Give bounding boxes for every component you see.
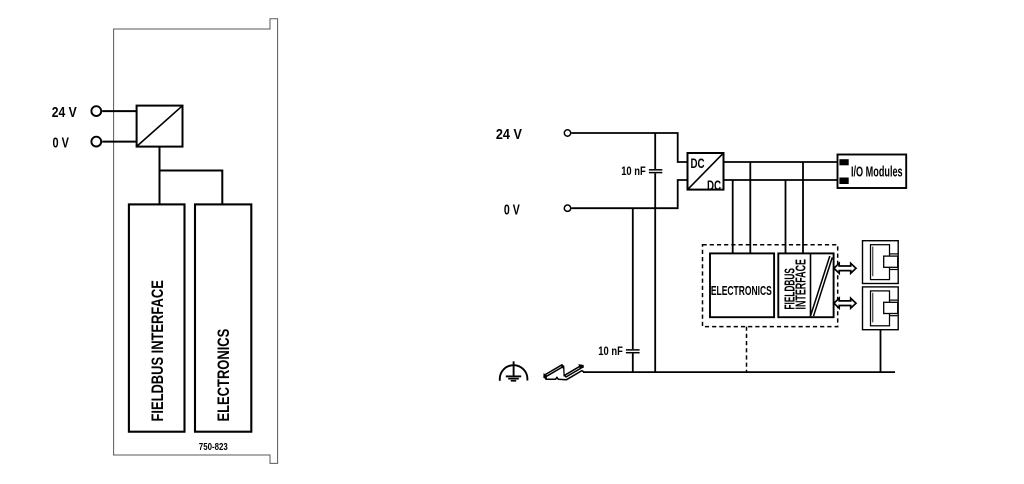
svg-text:I/O Modules: I/O Modules [851,164,903,180]
wire 24V rail to converter input [571,133,687,162]
wire drop 4 to fieldbus interface [802,162,804,253]
svg-text:FIELDBUS INTERFACE: FIELDBUS INTERFACE [148,280,167,421]
dashed shield wire from enclosure to earth rail [746,327,748,373]
wire lower RJ45 to earth rail [880,330,882,372]
DC/DC converter box (left) [137,106,183,147]
divider line in fieldbus box [810,253,812,317]
isolation diagonal double line [811,256,830,316]
svg-text:INTERFACE: INTERFACE [794,259,810,310]
double arrow lower [834,298,856,308]
wire drop 2 to electronics [749,162,751,253]
svg-text:24 V: 24 V [52,104,77,121]
svg-text:750-823: 750-823 [199,441,228,453]
electronics box (left) [195,204,251,431]
RJ45 connector lower [863,287,899,330]
wire converter to fieldbus interface box (left) [159,147,161,204]
I/O Modules box [838,155,907,189]
svg-text:DC: DC [707,177,721,193]
electronics box (right) [710,253,774,317]
I/O Modules pin lower [839,178,848,185]
wire 24V terminal to converter (left) [102,110,137,112]
svg-text:10 nF: 10 nF [598,344,623,358]
wire branch to electronics box (left) [160,171,223,204]
fieldbus interface box (right) [778,253,833,317]
wire 0V rail to converter input [571,180,687,208]
svg-text:ELECTRONICS: ELECTRONICS [214,329,233,422]
svg-text:0 V: 0 V [53,134,69,151]
terminal circle 24V (right) [564,130,570,136]
wire upper output rail [724,161,838,163]
device outline 750-823 [114,19,278,464]
DC/DC converter box (right) [688,153,724,190]
svg-text:DC: DC [691,155,705,171]
earth ground symbol [500,361,528,381]
svg-text:0 V: 0 V [504,202,520,219]
capacitor C2 10 nF (0V to earth) [626,208,640,372]
wire drop 3 to fieldbus interface [785,180,787,253]
wire drop 1 to electronics [732,180,734,253]
dashed enclosure box [703,245,838,327]
svg-text:10 nF: 10 nF [621,164,646,178]
capacitor C1 10 nF (24V to earth) [649,133,662,372]
I/O Modules pin upper [839,159,848,165]
svg-text:24 V: 24 V [496,126,522,143]
terminal circle 24V (left) [91,106,101,116]
wire 0V terminal to converter (left) [102,141,137,143]
double arrow upper [834,263,856,273]
DIN rail symbol [544,365,585,380]
terminal circle 0V (right) [564,205,570,211]
RJ45 connector upper [863,241,899,284]
wire lower output rail [724,179,838,181]
terminal circle 0V (left) [91,137,101,147]
fieldbus interface box (left) [129,204,185,431]
svg-text:ELECTRONICS: ELECTRONICS [711,284,772,298]
earth rail (bottom) [583,371,895,373]
